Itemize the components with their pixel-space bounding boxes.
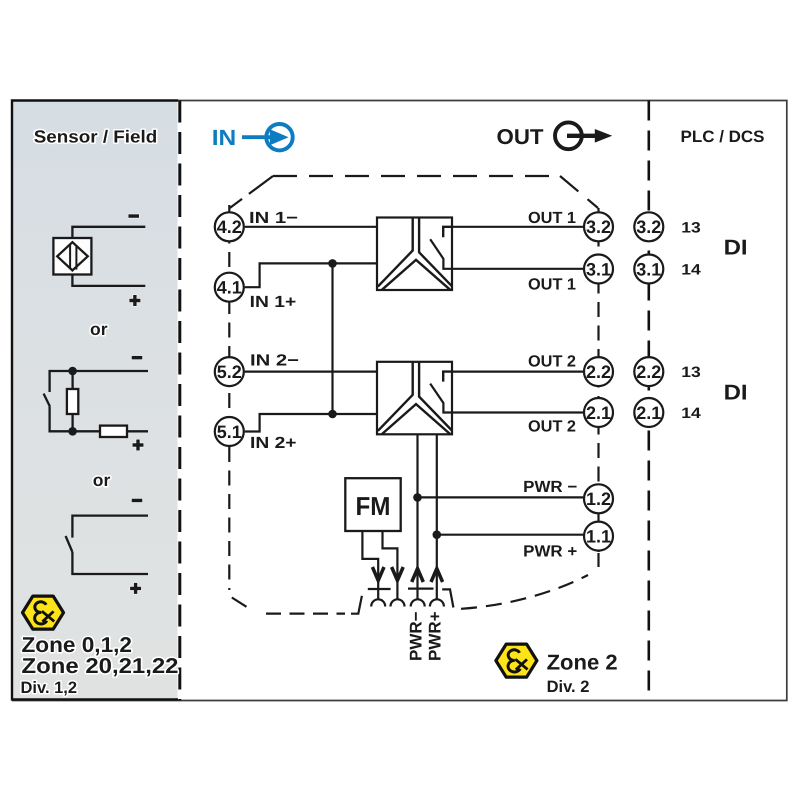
isolator U2 barrier right line [419,362,452,431]
OUT arrow symbol [555,122,612,149]
terminal 4.2 [215,212,244,241]
wire PWR- [418,496,584,498]
sensor S3 switch blade [66,536,73,552]
wire IN 2+ [245,414,377,432]
terminal 3.1 [584,255,613,284]
svg-text:2.2: 2.2 [586,362,611,382]
wire IN 1- [245,226,377,228]
sensor S2 wire minus [50,371,148,392]
IN arrow symbol [242,124,293,150]
PLC terminal 3.2 [634,212,663,241]
svg-text:OUT 2: OUT 2 [528,353,576,371]
sensor S2 junction dot bottom [68,427,77,436]
wire supply line right [436,434,438,599]
terminal 2.2 [584,357,613,386]
outline left column dashed [228,205,230,447]
isolator U2 contact hook [443,372,452,382]
S1 minus [128,214,139,218]
terminal 2.1 [584,398,613,427]
outline top-left corner diagonal [230,176,273,208]
svg-text:FM: FM [356,491,391,521]
svg-text:1.1: 1.1 [586,526,611,546]
PLC terminal 3.1 [634,255,663,284]
S1 plus [129,295,140,306]
svg-text:3.2: 3.2 [636,217,661,237]
svg-text:or: or [93,470,111,490]
terminal 5.1 [215,417,244,446]
svg-text:2.1: 2.1 [586,403,611,423]
terminal 4.1 [215,273,244,302]
isolator U1 barrier left line [378,218,413,287]
PLC pin labels [681,219,701,422]
PLC terminal 2.1 [634,398,663,427]
wire OUT 1 top [443,226,583,228]
sensor S1 diamond [57,242,88,270]
S3 minus [132,499,143,503]
isolator U1 barrier right line [419,218,452,287]
outline right column dashed [597,208,599,553]
S2 plus [133,440,144,451]
sensor S1 wire plus [72,275,145,286]
svg-text:3.1: 3.1 [586,259,611,279]
wire PWR+ [437,534,583,536]
junction dot IN2+ [328,410,337,419]
Ex symbol right [496,644,537,677]
isolator U2 barrier left line [378,362,413,431]
svg-text:5.1: 5.1 [217,422,242,442]
PLC separator dashed line [647,101,650,701]
connector crossbar right [408,587,434,589]
svg-text:3.2: 3.2 [586,217,611,237]
sensor S1 inner lines [70,245,76,270]
svg-text:DI: DI [724,381,748,405]
S3 plus [130,583,141,594]
svg-text:Div. 1,2: Div. 1,2 [21,679,78,697]
connector cup 3 [411,599,425,606]
isolator U1 box [377,218,452,291]
sensor S2 resistor vertical [71,371,73,389]
terminal 1.1 [584,522,613,551]
connector cup 1 [371,599,385,606]
connector crossbar left [368,588,391,590]
isolator U1 contact blade + wire OUT 1 bottom [430,239,583,269]
svg-text:PLC / DCS: PLC / DCS [681,128,765,146]
svg-text:PWR+: PWR+ [426,611,445,661]
svg-text:Sensor / Field: Sensor / Field [34,127,158,147]
svg-text:PWR −: PWR − [523,478,577,496]
svg-text:DI: DI [724,236,748,260]
wire FM leg left [362,531,378,599]
isolator U1 contact hook [443,227,452,237]
wire OUT 2 top [443,371,583,373]
connector cup 4 [430,599,444,606]
svg-text:PWR +: PWR + [523,542,577,560]
arrow up supply right [431,569,443,583]
svg-text:OUT 1: OUT 1 [528,275,576,293]
sensor S2 switch blade [44,394,50,407]
svg-text:Div. 2: Div. 2 [547,678,590,696]
svg-text:5.2: 5.2 [217,362,242,382]
svg-text:OUT: OUT [497,125,544,149]
svg-text:14: 14 [681,405,701,422]
outline top-right corner diagonal [560,176,598,208]
svg-text:PWR−: PWR− [407,611,426,661]
sensor S3 wire minus [72,516,148,538]
PLC terminal 2.2 [634,357,663,386]
wire IN 1+ [245,263,377,287]
outline notch left tick [351,596,362,614]
svg-text:13: 13 [681,219,701,236]
terminal 5.2 [215,357,244,386]
svg-text:IN 2+: IN 2+ [250,434,297,452]
svg-text:IN: IN [212,125,237,150]
isolator U2 contact blade + wire OUT 2 bottom [430,384,583,413]
svg-text:OUT 1: OUT 1 [528,209,576,227]
svg-text:4.2: 4.2 [217,217,242,237]
arrow down FM right [392,567,404,581]
sensor S2 resistor horizontal [100,426,127,437]
svg-text:2.2: 2.2 [636,362,661,382]
svg-text:Zone 20,21,22: Zone 20,21,22 [22,654,179,678]
Ex symbol left [23,596,64,629]
S2 minus [132,356,143,360]
wire IN 2- [245,371,377,373]
terminal 1.2 [584,484,613,513]
svg-text:Zone 0,1,2: Zone 0,1,2 [22,633,133,657]
outline notch right tick [442,589,453,607]
outline top edge [273,175,560,177]
svg-text:1.2: 1.2 [586,489,611,509]
sensor S2 lower lead [50,407,100,432]
junction dot PWR+ [433,530,442,539]
sensor S3 wire plus [72,552,148,574]
svg-text:OUT 2: OUT 2 [528,418,576,436]
outline bottom-right corner dashed [461,575,588,609]
svg-text:IN 2−: IN 2− [250,352,299,370]
svg-text:2.1: 2.1 [636,403,661,423]
arrow down FM left [372,567,384,581]
isolator U2 barrier chevron [382,404,450,434]
svg-text:14: 14 [681,262,701,279]
svg-text:IN 1+: IN 1+ [250,293,296,311]
connector cup 2 [391,599,405,606]
wire FM leg right [383,531,398,599]
isolator U2 box [377,362,452,435]
isolator U1 barrier chevron [382,260,450,290]
sensor S2 wire plus right [127,430,148,432]
sensor S1 wire minus [72,227,145,238]
terminal 3.2 [584,212,613,241]
wire supply line left [416,434,418,599]
junction dot IN1+ [328,259,337,268]
svg-text:4.1: 4.1 [217,278,242,298]
sensor S1 proximity box [53,238,91,275]
wire link IN1+ to IN2+ [331,263,333,414]
sensor S2 junction dot top [68,367,77,376]
outline bottom-left corner dashed [228,447,230,590]
svg-text:IN 1−: IN 1− [249,209,298,227]
polarity signs [128,214,143,594]
junction dot PWR- [413,493,422,502]
svg-text:13: 13 [681,364,701,381]
svg-text:Zone 2: Zone 2 [547,650,618,674]
svg-text:or: or [90,319,108,339]
svg-text:3.1: 3.1 [636,259,661,279]
arrow up supply left [412,569,424,583]
zone separator dashed line left [178,101,181,701]
